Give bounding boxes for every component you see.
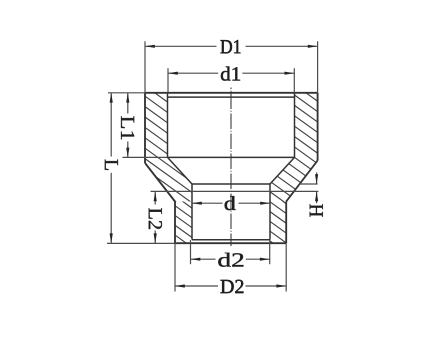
body: d1 seat [168,156,295,158]
body: right inner wall d1 [294,93,296,158]
body: right inner cone [270,157,295,184]
body: left lower inner wall [191,184,193,240]
dim d2 [190,240,192,264]
body: left outer wall [144,93,146,163]
dim D2 [174,243,176,291]
dim d1 [167,68,169,93]
dim H [299,183,318,185]
dim L [108,92,145,94]
body: left inner wall d1 [167,93,169,158]
body: left lower outer wall [174,202,176,244]
body: bottom face [175,242,286,244]
body: socket mouth inner edge [168,96,295,98]
centerline [230,88,232,247]
dim L1 [123,156,168,158]
body: left outer cone [145,163,175,202]
body: inner bottom edge [192,239,270,241]
dim d [192,202,223,204]
body: left inner cone [168,157,193,184]
body: top face [145,92,318,94]
body: right outer wall [317,93,319,161]
dim L2 [151,190,319,192]
body: right lower inner wall [269,184,271,240]
body: right outer cone [286,161,317,202]
dim D1 [144,41,146,93]
body: right lower outer wall [285,202,287,244]
body: d shoulder [192,183,270,185]
